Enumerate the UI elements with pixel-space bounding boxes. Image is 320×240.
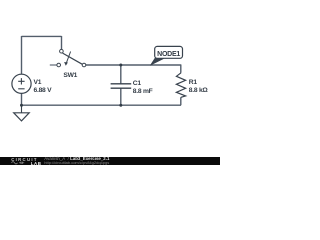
footer bar — [0, 157, 220, 165]
capacitor C1 — [111, 84, 132, 88]
footer text line 2 — [44, 160, 109, 165]
footer logo squiggle — [11, 161, 31, 165]
svg-text:R1: R1 — [189, 79, 198, 86]
resistor R1 — [176, 73, 185, 98]
wire V1 bottom to ground junction — [21, 93, 23, 105]
svg-text:6.88 V: 6.88 V — [34, 87, 53, 94]
svg-text:V1: V1 — [34, 79, 42, 86]
wire right vertical lower (R1 to bottom) — [180, 97, 182, 105]
svg-text:8.8 mF: 8.8 mF — [133, 88, 153, 95]
svg-text:C1: C1 — [133, 80, 142, 87]
wire top-left horizontal — [22, 35, 62, 37]
footer logo CIRCUITLAB — [11, 157, 38, 162]
junction dot ground — [20, 104, 23, 107]
wire left vertical to V1 — [21, 36, 23, 74]
wire right vertical upper (to R1 top) — [180, 65, 182, 73]
ground — [14, 105, 30, 121]
svg-text:8.8 kΩ: 8.8 kΩ — [189, 87, 209, 94]
wire C1 top lead — [120, 65, 122, 84]
footer text line 1 — [44, 156, 109, 161]
switch SW1 — [57, 49, 86, 66]
svg-text:NODE1: NODE1 — [157, 51, 180, 58]
junction dot C1 top — [119, 64, 122, 67]
wire top horizontal (switch to R1) — [86, 64, 181, 66]
junction dot C1 bottom — [119, 104, 122, 107]
node flag NODE1 — [150, 58, 163, 65]
svg-text:SW1: SW1 — [63, 72, 77, 79]
wire C1 bottom lead — [120, 88, 122, 105]
wire bottom horizontal — [22, 104, 182, 106]
wire switch left stub — [50, 64, 57, 66]
voltage source V1 — [12, 74, 31, 93]
wire switch top drop — [61, 36, 63, 49]
